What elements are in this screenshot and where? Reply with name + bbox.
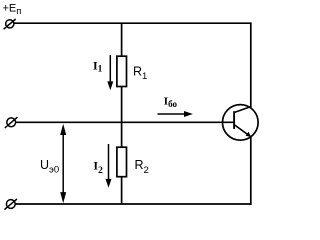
resistor R1 bbox=[117, 56, 127, 86]
wire middle rail (base rail) bbox=[16, 121, 235, 123]
transistor VT circle bbox=[223, 105, 259, 141]
terminal middle-left input bbox=[5, 117, 18, 128]
transistor emitter lead with arrowhead bbox=[234, 125, 251, 137]
terminal bottom-left input bbox=[4, 199, 17, 210]
voltage arrow Uэ0 (double headed) bbox=[60, 124, 66, 204]
current arrow I2 bbox=[106, 144, 112, 188]
current arrow I1 bbox=[107, 55, 113, 90]
current arrow Iб0 bbox=[158, 111, 193, 117]
wire from R2 to bottom rail bbox=[121, 177, 123, 204]
wire collector branch (right vertical, top) bbox=[250, 22, 252, 107]
wire emitter branch (right vertical, bottom) bbox=[250, 137, 252, 205]
wire from middle rail to R2 bbox=[121, 122, 123, 147]
resistor R2 bbox=[117, 147, 127, 177]
wire bottom rail bbox=[15, 203, 251, 205]
terminal top-left input bbox=[4, 19, 16, 29]
wire top rail +Eп bbox=[14, 22, 251, 24]
transistor collector lead bbox=[234, 107, 251, 113]
wire from top rail to R1 bbox=[121, 23, 123, 56]
transistor base bar bbox=[233, 111, 235, 129]
wire from R1 to middle rail bbox=[121, 87, 123, 123]
